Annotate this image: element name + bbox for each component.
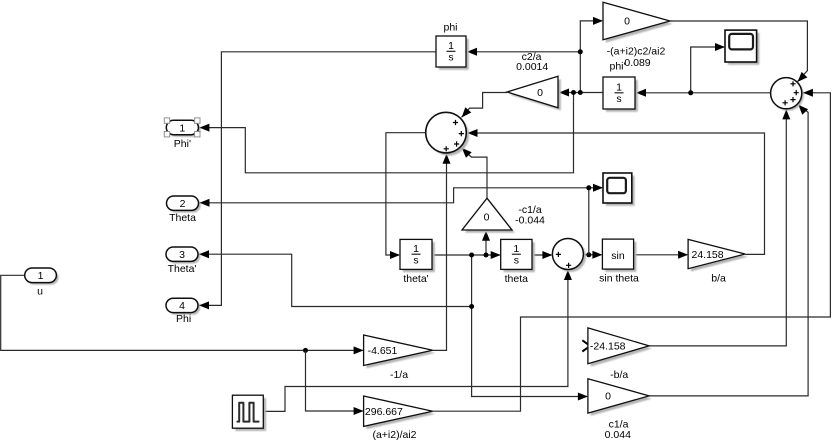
integrator theta (1/s) — [504, 242, 535, 272]
svg-text:-1/a: -1/a — [390, 369, 408, 381]
wire 296.667 gain output to right sum right input — [433, 93, 831, 411]
svg-text:1: 1 — [179, 122, 185, 134]
junction theta-prime to -c1/a — [484, 253, 489, 258]
svg-text:s: s — [413, 255, 418, 267]
svg-text:0.044: 0.044 — [605, 429, 631, 441]
gain c2/a (left-pointing) value 0 — [510, 79, 561, 110]
svg-text:sin theta: sin theta — [599, 272, 639, 284]
svg-text:296.667: 296.667 — [365, 406, 403, 418]
svg-text:4: 4 — [179, 300, 185, 312]
svg-text:-0.044: -0.044 — [515, 215, 545, 227]
svg-text:phi': phi' — [609, 60, 625, 72]
wire -4.651 gain output up to left sum bottom input — [433, 154, 447, 350]
svg-text:0.089: 0.089 — [624, 57, 650, 69]
svg-text:b/a: b/a — [711, 272, 726, 284]
wire left sum output to theta-prime integrator input — [386, 133, 426, 255]
wire branch up into -c1/a gain — [485, 232, 487, 256]
in-port 1 u — [27, 270, 59, 285]
svg-text:u: u — [37, 285, 43, 297]
block sin — [605, 242, 636, 272]
junction theta-prime branch — [469, 253, 474, 258]
wire right sum output to phi-prime integrator input — [636, 92, 771, 94]
sum junction right (phi acceleration) — [773, 80, 804, 111]
junction phi-prime to Phi-prime port — [571, 90, 576, 95]
integrator phi (1/s) — [439, 39, 469, 70]
junction theta signal — [586, 252, 591, 257]
svg-text:s: s — [514, 255, 519, 267]
svg-text:-(a+i2)c2/ai2: -(a+i2)c2/ai2 — [607, 45, 666, 57]
wire branch up to Scope1 — [691, 47, 724, 93]
junction phi-prime to top gain — [578, 90, 583, 95]
svg-text:1: 1 — [513, 243, 519, 255]
junction on phi-acc line — [688, 90, 693, 95]
gain (a+i2)/ai2 value 296.667 — [366, 399, 435, 429]
svg-text:-24.158: -24.158 — [590, 341, 626, 353]
wire branch down to Phi-prime out-port (long horizontal) — [199, 93, 573, 173]
wire branch left to phi integrator input — [467, 51, 580, 53]
junction theta-prime to c1/a — [469, 304, 474, 309]
wire c2/a gain output to left sum top-right input — [462, 93, 508, 118]
svg-text:0: 0 — [624, 16, 630, 28]
wire top gain output to right sum (down then diagonal) — [670, 21, 807, 81]
wire u branch down to 296.667 gain input — [306, 350, 363, 411]
junction u signal — [303, 348, 308, 353]
svg-text:1: 1 — [38, 270, 44, 282]
wire u in-port around left edge to -1/a gain input — [1, 275, 363, 350]
integrator theta-prime (1/s) — [403, 242, 435, 272]
open input chevron of -b/a gain — [582, 340, 590, 351]
junction theta to scope2 — [586, 185, 591, 190]
scope Scope1 — [728, 33, 760, 65]
junction on top-gain riser — [578, 49, 583, 54]
gain -c1/a (up-pointing) value 0 — [465, 201, 515, 233]
out-port 2 Theta — [169, 198, 201, 212]
svg-text:0: 0 — [537, 87, 543, 99]
wire -b/a gain output up to right sum bottom input — [649, 110, 786, 346]
gain -(a+i2)c2/ai2 value 0 — [606, 5, 673, 43]
wire phi integrator output to Phi out-port (via left vertical) — [199, 52, 436, 306]
svg-text:3: 3 — [179, 249, 185, 261]
svg-text:phi: phi — [443, 22, 457, 34]
svg-text:24.158: 24.158 — [692, 249, 724, 261]
svg-text:theta': theta' — [403, 273, 428, 285]
svg-text:1: 1 — [413, 243, 419, 255]
wire b/a gain output to left sum right input — [468, 133, 765, 254]
svg-text:theta: theta — [505, 273, 529, 285]
integrator phi-prime (1/s) — [606, 80, 638, 112]
svg-text:Theta': Theta' — [168, 263, 197, 275]
svg-text:1: 1 — [448, 40, 454, 52]
out-port 1 Phi-prime (selected) — [169, 123, 201, 137]
svg-text:-4.651: -4.651 — [368, 345, 398, 357]
gain b/a value 24.158 — [691, 242, 748, 271]
gain -1/a value -4.651 — [366, 338, 435, 369]
wire branch down to Theta-prime out-port — [199, 254, 472, 306]
svg-text:s: s — [448, 52, 453, 64]
svg-text:0.0014: 0.0014 — [516, 61, 548, 73]
scope Scope2 — [606, 176, 635, 206]
wire c1/a gain output up to right sum lower-right input — [649, 105, 808, 396]
wire pulse generator output to theta sum bottom input — [263, 271, 568, 412]
wire sin block output to b/a gain input — [634, 254, 688, 256]
svg-text:2: 2 — [180, 198, 186, 210]
gain -b/a value -24.158 — [591, 331, 652, 367]
wire theta sum output to sin block — [583, 254, 601, 256]
svg-text:s: s — [616, 93, 621, 105]
wire -c1/a gain output to left sum lower-right input — [462, 148, 487, 198]
sum junction theta — [555, 241, 586, 272]
pulse generator — [235, 398, 266, 431]
svg-text:Theta: Theta — [169, 212, 196, 224]
svg-text:sin: sin — [611, 250, 625, 262]
wire theta integrator output to theta sum input — [532, 254, 551, 256]
wire branch down-right to c1/a gain input — [472, 307, 587, 397]
wire branch up to -(a+i2)c2/ai2 gain input — [580, 21, 602, 93]
svg-text:Phi: Phi — [176, 313, 191, 325]
gain c1/a value 0 — [591, 382, 652, 416]
out-port 3 Theta-prime — [168, 249, 200, 263]
svg-text:1: 1 — [616, 81, 622, 93]
sum junction left (theta acceleration) — [429, 115, 470, 156]
out-port 4 Phi — [168, 300, 200, 314]
svg-text:(a+i2)/ai2: (a+i2)/ai2 — [372, 429, 416, 441]
svg-text:Phi': Phi' — [174, 138, 191, 150]
wire theta branch up to Scope2 and Theta out-port — [589, 188, 602, 255]
svg-text:-b/a: -b/a — [610, 369, 628, 381]
wire theta-prime integrator output to theta integrator input — [432, 254, 500, 256]
svg-text:0: 0 — [605, 391, 611, 403]
svg-text:0: 0 — [484, 211, 490, 223]
wire phi-prime integrator output to c2/a gain input — [559, 92, 603, 94]
